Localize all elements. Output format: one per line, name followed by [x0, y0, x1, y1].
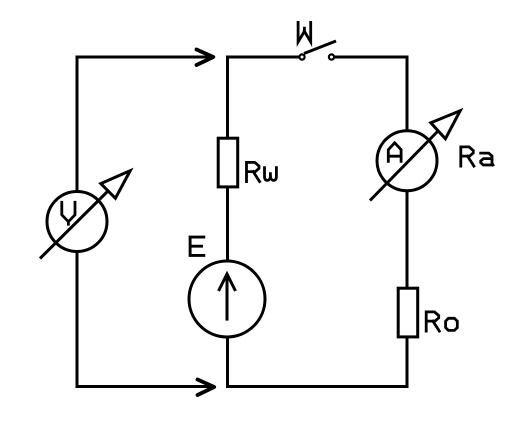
label W — [298, 22, 311, 42]
resistor Rw — [218, 138, 238, 187]
wire top-left horizontal — [77, 56, 213, 59]
source E arrow — [219, 274, 236, 321]
wire middle top corner — [228, 56, 299, 59]
voltmeter arrowhead — [101, 171, 130, 199]
switch W lever — [304, 41, 336, 54]
ammeter A circle — [377, 131, 437, 191]
arrow bottom-left — [198, 380, 215, 396]
wire right vertical top — [406, 56, 409, 133]
voltmeter arrow line — [40, 191, 108, 259]
wire middle between Rw and E — [226, 187, 229, 262]
voltmeter V1 circle — [47, 192, 107, 252]
switch contact left — [299, 54, 304, 59]
label Ro — [426, 312, 457, 331]
wire bottom middle — [226, 385, 409, 388]
wire left vertical lower — [76, 252, 79, 387]
wire right below Ro — [406, 337, 409, 388]
label Rw — [247, 162, 277, 181]
resistor Ro — [398, 288, 418, 337]
arrow top-left — [197, 50, 214, 66]
wire bottom-left horizontal — [76, 385, 215, 388]
ammeter arrowhead — [431, 111, 460, 139]
label A — [388, 143, 401, 162]
wire right between A and Ro — [406, 190, 409, 288]
wire top right of switch — [335, 56, 407, 59]
label E — [190, 237, 204, 255]
wire middle below E — [226, 337, 229, 387]
ammeter arrow line — [370, 131, 438, 201]
wire middle vertical upper — [226, 56, 229, 138]
wire left vertical — [76, 56, 79, 193]
label Ra — [461, 147, 493, 166]
switch contact right — [329, 54, 334, 59]
source E circle — [189, 261, 265, 337]
label V — [62, 202, 75, 224]
